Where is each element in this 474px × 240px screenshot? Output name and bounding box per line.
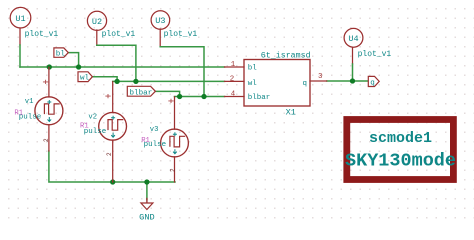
v3 internal plus mark xyxy=(173,133,176,136)
pulse source v3 xyxy=(141,97,188,182)
junction net wl at wl label xyxy=(114,79,119,84)
v2 body circle xyxy=(99,112,127,140)
v1 internal arrow mark xyxy=(48,118,51,122)
svg-text:plot_v1: plot_v1 xyxy=(25,30,59,39)
junction net wl at U2 drop xyxy=(133,79,138,84)
junction net bl at bl label xyxy=(76,64,81,69)
svg-text:v1: v1 xyxy=(25,98,34,106)
net label bl xyxy=(54,48,68,59)
probe U3 body xyxy=(151,11,170,30)
svg-text:U3: U3 xyxy=(155,16,165,26)
svg-text:2: 2 xyxy=(43,138,50,142)
svg-text:X1: X1 xyxy=(286,107,296,117)
v1 body circle xyxy=(35,97,63,125)
annotation box scmode1 / SKY130mode xyxy=(345,120,456,180)
probe U2 body xyxy=(87,11,106,30)
probe U3 plot_v1 xyxy=(151,11,197,40)
svg-text:U1: U1 xyxy=(15,14,25,24)
v2 minus pin lead xyxy=(112,140,114,182)
svg-text:wl: wl xyxy=(80,75,90,83)
pulse source v2 xyxy=(80,82,127,182)
junction net blbar at blbar label xyxy=(177,94,182,99)
junction net bl at v1 xyxy=(47,64,52,69)
wire blbar label stub xyxy=(155,91,179,96)
net label wl xyxy=(78,72,92,83)
pin lead q xyxy=(310,80,327,82)
v2 plus pin lead xyxy=(112,82,114,113)
probe U1 body xyxy=(10,7,31,28)
pulse source v1 xyxy=(14,67,63,151)
wire net q (net 3) xyxy=(327,80,368,82)
svg-text:q: q xyxy=(302,80,307,88)
svg-text:1: 1 xyxy=(231,61,236,69)
wire U1 probe drop to net bl xyxy=(19,28,21,67)
v3 body circle xyxy=(161,129,189,157)
v3 plus pin lead xyxy=(174,97,176,129)
net label q xyxy=(368,76,379,87)
junction ground rail at v2 xyxy=(110,179,115,184)
probe U4 plot_v1 xyxy=(344,28,391,58)
svg-text:3: 3 xyxy=(318,73,322,81)
svg-text:bl: bl xyxy=(248,65,258,73)
v3 plus polarity mark xyxy=(169,99,173,102)
wire U2 probe drop to net wl xyxy=(97,30,136,81)
ground arrow xyxy=(141,203,153,210)
svg-text:plot_v1: plot_v1 xyxy=(102,30,136,39)
svg-text:pulse: pulse xyxy=(84,128,107,136)
probe U2 plot_v1 xyxy=(87,11,135,39)
v1 plus polarity mark xyxy=(43,80,47,83)
probe U4 body xyxy=(344,28,363,47)
svg-text:6t_isramsd: 6t_isramsd xyxy=(261,51,311,61)
pin lead bl xyxy=(225,66,245,68)
sram cell X1 6t_isramsd xyxy=(225,51,327,118)
v3 internal arrow mark xyxy=(173,150,176,154)
svg-text:wl: wl xyxy=(248,80,258,88)
junction net blbar at U3 drop xyxy=(201,94,206,99)
svg-text:v3: v3 xyxy=(150,126,159,134)
svg-text:2: 2 xyxy=(170,168,177,172)
wire net bl horizontal rail (net 1) xyxy=(20,66,225,68)
v3 minus pin lead xyxy=(174,157,176,182)
junction net q at U4 drop xyxy=(350,78,355,83)
v1 pulse waveform glyph xyxy=(44,104,59,114)
svg-text:2: 2 xyxy=(106,152,113,156)
v1 minus pin lead xyxy=(48,125,50,151)
svg-text:U2: U2 xyxy=(92,17,102,27)
wire net wl horizontal rail (net 2) xyxy=(113,80,225,82)
v1 internal plus mark xyxy=(48,101,51,104)
wire wl label stub xyxy=(92,77,117,82)
v2 pulse waveform glyph xyxy=(108,120,123,131)
svg-text:U4: U4 xyxy=(348,34,358,44)
junction ground rail at gnd tap xyxy=(144,179,149,184)
wire gnd tap xyxy=(146,182,148,200)
ground xyxy=(139,199,154,223)
svg-text:pulse: pulse xyxy=(144,141,167,149)
pin lead wl xyxy=(225,80,245,82)
svg-text:blbar: blbar xyxy=(248,94,271,102)
wire ground rail xyxy=(49,151,175,182)
probe U1 plot_v1 xyxy=(10,7,58,39)
svg-text:v2: v2 xyxy=(88,114,97,122)
svg-text:2: 2 xyxy=(230,75,234,83)
wire U4 probe drop to net q xyxy=(352,48,354,82)
svg-text:plot_v1: plot_v1 xyxy=(358,50,392,59)
svg-text:pulse: pulse xyxy=(19,114,42,122)
v2 internal arrow mark xyxy=(112,133,115,137)
v2 internal plus mark xyxy=(112,116,115,119)
svg-text:blbar: blbar xyxy=(130,89,153,97)
net label blbar xyxy=(127,86,155,97)
v3 pulse waveform glyph xyxy=(170,136,185,147)
wire U3 probe drop to net blbar xyxy=(160,29,204,97)
svg-text:GND: GND xyxy=(139,213,154,223)
v1 plus pin lead xyxy=(48,67,50,97)
svg-text:plot_v1: plot_v1 xyxy=(164,30,198,39)
pin lead blbar xyxy=(225,96,245,98)
ground pin stub xyxy=(146,199,148,204)
annotation box frame xyxy=(347,120,454,180)
svg-text:scmode1: scmode1 xyxy=(369,130,432,147)
svg-text:4: 4 xyxy=(231,90,236,98)
v2 plus polarity mark xyxy=(106,94,110,97)
wire bl label stub xyxy=(68,53,78,67)
X1 body xyxy=(244,60,310,107)
svg-text:bl: bl xyxy=(56,51,66,59)
svg-text:q: q xyxy=(370,80,375,88)
svg-text:SKY130mode: SKY130mode xyxy=(345,151,456,172)
wire net blbar horizontal rail (net 4) xyxy=(175,96,225,98)
